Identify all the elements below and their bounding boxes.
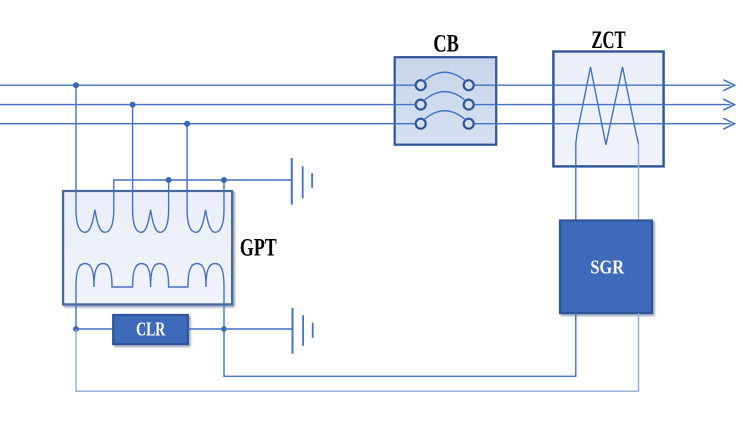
wire bus phase A <box>0 84 731 86</box>
wire bus phase C <box>0 123 731 125</box>
wire ZCT secondary right to SGR <box>638 143 640 221</box>
node phase C tap junction <box>184 121 190 127</box>
ZCT winding zigzag <box>576 67 639 145</box>
resistor CLR <box>113 315 188 344</box>
GPT primary winding 1 <box>76 210 114 233</box>
wire phase B tap to GPT <box>132 105 134 211</box>
arrowhead phase C <box>723 118 734 129</box>
wire secondary right terminal <box>223 287 225 329</box>
wire neutral riser winding 2 <box>168 180 170 211</box>
wire ZCT secondary left to SGR <box>575 143 577 221</box>
GPT primary winding 3 <box>187 210 224 233</box>
wire GPT neutral to ground <box>114 180 292 210</box>
node neutral junction 2 <box>221 177 227 183</box>
ground G2 (CLR circuit) <box>293 308 313 354</box>
svg-text:CLR: CLR <box>136 318 165 340</box>
zero-phase CT ZCT box <box>553 52 663 167</box>
svg-text:ZCT: ZCT <box>591 27 626 54</box>
wire secondary left terminal <box>75 287 77 329</box>
circuit breaker CB box <box>395 57 497 145</box>
svg-text:CB: CB <box>433 31 459 58</box>
wire phase A tap to GPT <box>75 85 77 210</box>
ground G1 (GPT neutral) <box>292 158 312 205</box>
wire SGR left output to CLR node <box>224 313 576 376</box>
transformer GPT box <box>63 191 232 304</box>
wire to ground G2 <box>224 328 293 330</box>
node CLR right junction <box>221 326 227 332</box>
GPT primary winding 2 <box>133 210 169 233</box>
relay SGR <box>560 221 652 314</box>
CB pole 3 <box>416 111 474 129</box>
CB pole 2 <box>416 92 474 110</box>
wire phase C tap to GPT <box>186 124 188 211</box>
CB pole 1 <box>416 72 474 90</box>
node CLR left junction <box>73 326 79 332</box>
node neutral junction 1 <box>166 177 172 183</box>
wire CLR to ground node <box>188 328 224 330</box>
node phase B tap junction <box>130 102 136 108</box>
arrowhead phase B <box>723 99 734 110</box>
GPT secondary winding (open delta) <box>76 264 224 288</box>
svg-text:GPT: GPT <box>240 234 277 261</box>
node phase A tap junction <box>73 82 79 88</box>
wire SGR right output to secondary node <box>76 313 639 391</box>
svg-text:SGR: SGR <box>590 257 624 279</box>
arrowhead phase A <box>723 80 734 91</box>
wire neutral riser winding 3 <box>223 180 225 211</box>
wire secondary to CLR <box>76 328 113 330</box>
wire bus phase B <box>0 104 731 106</box>
